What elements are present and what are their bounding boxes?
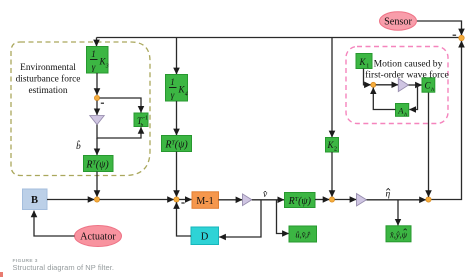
svg-text:B: B — [31, 195, 38, 206]
svg-text:K: K — [358, 57, 366, 67]
page-edge artifact — [0, 272, 3, 277]
wire: K3 to env junction — [96, 73, 98, 95]
svg-text:Structural diagram of NP filte: Structural diagram of NP filter. — [13, 263, 115, 272]
svg-text:Actuator: Actuator — [80, 232, 116, 243]
environmental estimation dashed box — [11, 42, 150, 176]
svg-text:1: 1 — [91, 49, 96, 59]
block D — [191, 227, 219, 245]
integrator triangle 4 (right) — [398, 78, 408, 91]
wire: integrator 4 to Ch — [409, 84, 422, 86]
svg-text:M-1: M-1 — [196, 196, 213, 207]
svg-text:RT(ψ): RT(ψ) — [288, 196, 312, 207]
minus at top junction — [453, 35, 457, 36]
minus at env junction — [101, 103, 104, 104]
wire: junction 2 to M-1 — [179, 199, 192, 201]
svg-text:first-order wave force: first-order wave force — [365, 70, 449, 81]
block Tb^-1 — [134, 113, 148, 127]
block B — [23, 189, 48, 210]
node: wave junction — [371, 82, 376, 87]
wire: branch down to D — [219, 200, 261, 237]
wire: wave junction to integrator 4 — [376, 84, 398, 86]
wire: branch down to xy-psi block — [397, 200, 399, 226]
svg-text:γ: γ — [92, 62, 96, 72]
svg-text:v̂: v̂ — [263, 189, 268, 200]
block x,y,psi estimates — [386, 226, 411, 242]
svg-text:D: D — [201, 232, 209, 243]
node: junction 3 — [329, 197, 334, 202]
wave-motion dashed box — [346, 47, 448, 124]
svg-text:-1: -1 — [143, 116, 148, 122]
svg-text:1: 1 — [366, 64, 369, 70]
integrator triangle 3 (right) — [357, 194, 367, 206]
node: junction 1 — [94, 197, 99, 202]
block Ch — [422, 78, 435, 92]
block u,v,r estimates — [289, 226, 317, 242]
wire: RT env to junction 1 — [96, 172, 98, 197]
svg-text:b̂: b̂ — [76, 139, 81, 152]
wire: D to junction 2 (negative) — [177, 202, 192, 236]
svg-text:disturbance force: disturbance force — [16, 74, 81, 85]
wire: K4 to RT mid — [176, 101, 178, 135]
node: junction 2 — [174, 197, 179, 202]
wire: drop to K3 — [96, 38, 98, 47]
wire: Ah back to wave junction — [373, 88, 395, 110]
block M-1 — [192, 192, 219, 209]
svg-text:A: A — [397, 106, 404, 116]
block RT(psi) right — [285, 193, 316, 208]
wire: integrator 3 to junction 4 — [367, 199, 426, 201]
wire: b-hat down to RT(psi) — [96, 138, 98, 155]
wire: junction 3 to integrator 3 — [335, 199, 357, 201]
wire: K2 to junction 3 — [331, 152, 333, 197]
wire: RT right to junction 3 — [315, 199, 329, 201]
actuator ellipse — [75, 226, 122, 247]
svg-text:4: 4 — [185, 91, 188, 98]
svg-text:RT(ψ): RT(ψ) — [85, 160, 109, 171]
wire: main feedback bus (top horizontal) — [97, 37, 462, 39]
node: junction 4 — [426, 197, 431, 202]
sensor ellipse — [380, 12, 417, 30]
wire: branch down to uvr block — [277, 200, 289, 234]
wire: integrator 2 to RT right — [252, 199, 284, 201]
sensor output wire — [417, 21, 462, 35]
block K2 — [326, 138, 339, 153]
svg-text:Environmental: Environmental — [20, 63, 76, 73]
svg-text:γ: γ — [171, 90, 175, 100]
wire: integrator out, branch to Tb bottom — [97, 125, 141, 138]
svg-text:estimation: estimation — [28, 86, 67, 96]
wire: env junction to Tb (top path) — [100, 98, 141, 113]
wire: drop to K4 — [176, 38, 178, 75]
wire: RT mid to junction 2 — [176, 152, 178, 197]
wire: feedback to Ah — [409, 85, 417, 110]
wire: actuator to B — [34, 211, 75, 236]
wire: B to junction 1 — [47, 199, 94, 201]
node: top summing junction — [459, 35, 464, 40]
svg-text:x̂,ŷ,ψ: x̂,ŷ,ψ — [389, 230, 408, 240]
svg-text:û,v̂,r̂: û,v̂,r̂ — [295, 230, 311, 240]
svg-text:h: h — [431, 87, 434, 93]
svg-text:1: 1 — [170, 77, 175, 87]
wire: K1 to wave junction — [364, 69, 371, 85]
label: Motion caused by first-order wave force — [365, 59, 449, 81]
integrator triangle 2 (right) — [243, 194, 252, 206]
gain block K4 (1/gamma K4) — [166, 75, 188, 102]
block Ah — [396, 104, 409, 117]
node: env summing junction — [94, 95, 99, 100]
wire: M-1 to integrator 2 — [219, 199, 243, 201]
minus at junction 2 — [181, 202, 184, 203]
svg-text:η: η — [386, 190, 391, 200]
wire: env junction to integrator — [96, 101, 98, 115]
svg-text:Sensor: Sensor — [384, 17, 412, 28]
gain block K3 (1/gamma K3) — [87, 47, 109, 74]
label: Environmental disturbance force estimation — [16, 63, 81, 96]
svg-text:2: 2 — [334, 147, 337, 153]
integrator triangle (down) — [90, 116, 104, 125]
svg-text:3: 3 — [105, 64, 109, 70]
svg-text:h: h — [404, 112, 407, 118]
block RT(psi) env — [84, 156, 114, 172]
svg-text:RT(ψ): RT(ψ) — [164, 140, 188, 151]
svg-text:Motion caused by: Motion caused by — [374, 59, 443, 70]
wire: feedback up right side — [431, 41, 462, 200]
wire: drop to K2 — [331, 38, 333, 138]
block K1 — [356, 54, 372, 69]
wire: junction 1 to junction 2 — [100, 199, 174, 201]
wire: Ch down to junction 4 — [428, 92, 430, 197]
block RT(psi) mid — [162, 136, 192, 152]
